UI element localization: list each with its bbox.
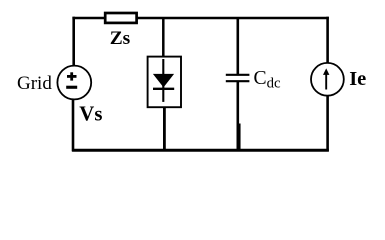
diode D1	[153, 59, 174, 102]
wire right rail upper	[326, 17, 329, 64]
wire left rail lower	[72, 99, 75, 151]
wire diode branch upper	[162, 18, 165, 58]
plus sign	[67, 72, 77, 80]
wire left rail upper	[72, 17, 75, 66]
wire diode branch lower	[163, 107, 166, 152]
wire capacitor branch lower overlap	[239, 124, 241, 151]
wire right rail lower	[326, 95, 329, 151]
minus sign	[66, 86, 77, 89]
voltage source Vs	[57, 66, 91, 100]
arrow	[323, 68, 329, 89]
wire bottom rail	[72, 149, 329, 152]
resistor Zs	[105, 13, 136, 23]
capacitor Cdc	[226, 75, 250, 81]
wire capacitor branch lower	[237, 81, 240, 151]
wire capacitor branch upper	[237, 18, 240, 75]
current source Ie	[311, 63, 344, 96]
svg-text:Zs: Zs	[110, 28, 131, 49]
svg-text:Vs: Vs	[79, 102, 102, 125]
diode box U1	[148, 57, 181, 108]
svg-text:Grid: Grid	[17, 73, 52, 94]
wire top rail left segment	[72, 17, 105, 20]
svg-text:Ie: Ie	[349, 68, 366, 90]
wire top rail right segment	[137, 17, 329, 20]
